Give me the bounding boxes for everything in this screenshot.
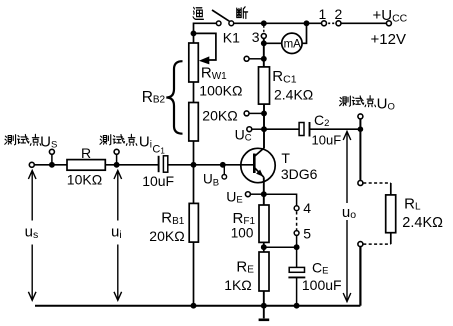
junction Us stub <box>49 162 55 168</box>
terminal 4 <box>294 200 311 216</box>
wire top rail switch to terminal 1 <box>234 22 322 24</box>
wire CE bottom lead <box>296 277 298 305</box>
terminal 1 <box>319 6 327 26</box>
wire C1 to base <box>168 164 255 166</box>
label 10uF (C1) <box>142 173 174 189</box>
wire RW1 to RB2 lower <box>193 82 195 103</box>
svg-text:4: 4 <box>303 200 311 216</box>
wire input to R <box>35 164 67 166</box>
wire terminal 3 to RC1 <box>263 39 265 67</box>
brace RB2 <box>166 61 182 134</box>
transistor collector lead <box>254 148 264 157</box>
dashed link 1-2 <box>328 22 336 24</box>
terminal stub Ui <box>114 149 119 165</box>
ground rail wire <box>35 305 360 307</box>
label RF1 <box>233 210 256 227</box>
wire RL bottom lead <box>390 233 392 244</box>
label 100 (RF1) <box>231 225 254 240</box>
junction CE ground <box>294 303 300 309</box>
capacitor C1 plate right <box>163 156 167 172</box>
label C2 <box>314 112 329 129</box>
terminal Ue <box>245 192 263 197</box>
label 2.4KΩ (RC1) <box>274 86 313 102</box>
terminal us input <box>29 162 34 167</box>
transistor emitter arrowhead <box>256 170 263 177</box>
label 测试点Ui <box>100 133 152 150</box>
wire emitter to terminal 4 <box>264 194 297 206</box>
svg-text:100uF: 100uF <box>302 277 342 293</box>
junction top rail / meter column <box>261 20 267 26</box>
junction Uc node <box>261 126 267 132</box>
junction RE ground <box>261 303 267 309</box>
label 20KΩ (RB1) <box>149 228 184 244</box>
junction K1 branch / RW1 top <box>191 30 197 36</box>
svg-text:10KΩ: 10KΩ <box>67 172 102 188</box>
label 3DG6 <box>281 166 318 182</box>
wire RB2 bottom lead <box>193 141 195 165</box>
label RC1 <box>272 68 296 86</box>
capacitor C1 plate left <box>158 156 160 172</box>
label 断 (switch off) <box>237 7 248 19</box>
label RW1 <box>201 65 227 83</box>
svg-text:R: R <box>81 145 91 161</box>
arrow us <box>28 171 36 301</box>
capacitor CE plate top <box>289 267 304 272</box>
potentiometer RW1 body <box>189 43 199 82</box>
svg-text:T: T <box>281 150 290 166</box>
svg-text:2.4KΩ: 2.4KΩ <box>274 86 313 102</box>
svg-text:1: 1 <box>319 6 327 22</box>
capacitor CE plate bottom <box>288 276 305 278</box>
switch K1 right contact <box>229 21 234 26</box>
wiper wire of RW1 <box>194 33 216 60</box>
label Uc <box>235 126 252 143</box>
ground symbol <box>259 306 270 320</box>
resistor RF1 body <box>259 205 269 242</box>
wire RB1 bottom lead <box>193 242 195 306</box>
svg-text:5: 5 <box>303 225 311 241</box>
dashed link RL top <box>363 182 391 184</box>
wire RL top lead <box>390 183 392 195</box>
terminal 2 <box>335 6 343 26</box>
label CE <box>312 259 328 276</box>
wire RW1 top lead <box>193 33 195 43</box>
transistor emitter lead <box>254 168 263 178</box>
label 通 (switch on) <box>193 7 203 19</box>
junction CE top node <box>294 244 300 250</box>
wire RF1 top lead <box>263 194 265 205</box>
terminal RL bottom <box>358 242 363 247</box>
terminal Ub <box>222 165 227 179</box>
label R <box>81 145 91 161</box>
svg-text:1KΩ: 1KΩ <box>224 277 252 293</box>
svg-text:2.4KΩ: 2.4KΩ <box>402 215 443 231</box>
label RL <box>404 195 421 212</box>
terminal stub at RC1 top <box>244 56 264 61</box>
wire RF1/RE node to CE <box>264 246 297 248</box>
svg-text:+12V: +12V <box>371 31 406 48</box>
svg-text:10uF: 10uF <box>312 133 342 148</box>
label 100uF (CE) <box>302 277 342 293</box>
terminal 3 <box>252 29 266 45</box>
junction top rail / meter return <box>304 20 310 26</box>
junction collector upper stub <box>261 110 267 116</box>
label 100KΩ <box>199 83 242 99</box>
transistor base bar <box>253 154 256 174</box>
terminal 5 <box>294 225 311 241</box>
resistor R body <box>67 160 105 171</box>
label +Ucc <box>373 7 408 25</box>
wire RF1 to RE <box>263 242 265 252</box>
label 2.4KΩ (RL) <box>402 215 443 231</box>
wire RC1 to collector <box>263 104 265 148</box>
capacitor C2 plate left <box>299 123 304 136</box>
junction RF1/RE node <box>261 244 267 250</box>
wire Uc to C2 <box>264 128 299 130</box>
resistor RB1 body <box>189 203 198 242</box>
arrow uo <box>343 132 351 302</box>
wire top rail left of switch <box>194 23 217 33</box>
dashed link meter column <box>263 26 265 33</box>
resistor RL body <box>386 195 396 233</box>
wire terminal 5 down <box>296 236 298 248</box>
resistor RC1 body <box>259 67 270 104</box>
wire output bottom to ground rail <box>359 247 361 306</box>
label 测试点Us <box>5 133 57 150</box>
svg-text:K1: K1 <box>223 30 240 46</box>
terminal Uc <box>247 127 264 132</box>
junction Ub node <box>220 162 226 168</box>
wire RE bottom lead <box>263 291 265 306</box>
resistor RE body <box>259 252 269 291</box>
terminal +Ucc <box>386 21 391 26</box>
label 20KΩ <box>202 107 237 123</box>
label C1 <box>152 144 165 156</box>
svg-text:20KΩ: 20KΩ <box>202 107 237 123</box>
svg-text:3DG6: 3DG6 <box>281 166 318 182</box>
label 10KΩ (R) <box>67 172 102 188</box>
wiper arrowhead <box>199 56 210 64</box>
label RB1 <box>161 209 185 227</box>
wire output node vertical <box>359 119 361 180</box>
label ui <box>111 224 122 241</box>
junction RB1 ground <box>191 303 197 309</box>
junction collector terminal stub <box>261 56 267 62</box>
svg-text:10uF: 10uF <box>142 173 174 189</box>
wire meter right lead up to rail <box>302 23 306 43</box>
dashed link RL bottom <box>363 243 391 245</box>
terminal RL top <box>358 181 363 186</box>
label 1KΩ (RE) <box>224 277 252 293</box>
junction output node <box>358 126 364 132</box>
transistor T circle <box>241 148 275 182</box>
dashed link 4-5 <box>296 212 298 231</box>
svg-text:100KΩ: 100KΩ <box>199 83 242 99</box>
svg-text:2: 2 <box>335 6 343 22</box>
junction meter left lead <box>261 40 267 46</box>
resistor RB2 lower 20K body <box>189 103 199 142</box>
capacitor C2 plate right <box>309 122 311 137</box>
terminal stub upper collector <box>244 111 264 116</box>
wire C2 to output node <box>310 128 361 130</box>
label Ub <box>203 172 219 189</box>
label uo <box>342 204 356 221</box>
label K1 <box>223 30 240 46</box>
label RE <box>236 258 254 275</box>
junction Ue node <box>261 191 267 197</box>
label RB2 <box>142 89 166 106</box>
wire emitter down <box>263 177 265 194</box>
ammeter mA <box>282 33 302 53</box>
switch K1 left contact <box>216 21 221 26</box>
label 测试点Uo <box>340 95 395 112</box>
wire R to C1 <box>105 164 158 166</box>
label Ue <box>226 188 242 205</box>
wire CE top lead <box>296 247 298 267</box>
wire meter left lead <box>264 42 282 44</box>
svg-text:mA: mA <box>284 38 302 50</box>
svg-text:3: 3 <box>252 29 260 45</box>
wire terminal 2 to +Ucc <box>341 22 386 24</box>
terminal stub Us <box>49 149 54 165</box>
label us <box>25 224 39 241</box>
arrow ui <box>114 171 122 301</box>
label 10uF (C2) <box>312 133 342 148</box>
junction RB2/RB1 node <box>191 162 197 168</box>
svg-text:20KΩ: 20KΩ <box>149 228 184 244</box>
wire RB1 top lead <box>193 165 195 204</box>
junction Ui stub <box>114 162 120 168</box>
switch K1 lever <box>212 10 229 21</box>
terminal Uo <box>358 114 363 119</box>
label T <box>281 150 290 166</box>
svg-text:100: 100 <box>231 225 254 240</box>
label +12V <box>371 31 406 48</box>
